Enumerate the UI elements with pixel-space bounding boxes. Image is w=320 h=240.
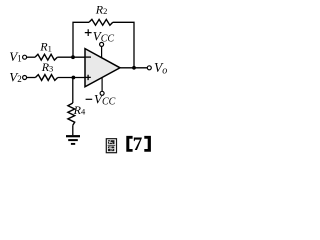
svg-text:R2: R2 bbox=[95, 2, 108, 16]
op-amp -VCC pin stub bbox=[101, 78, 103, 92]
svg-text:7: 7 bbox=[133, 134, 143, 155]
ground bbox=[66, 135, 80, 137]
svg-text:V1: V1 bbox=[9, 49, 21, 64]
op-amp U1 bbox=[85, 49, 120, 87]
wire V2 terminal to R3 bbox=[27, 77, 36, 79]
resistor R3 bbox=[35, 75, 57, 81]
node Vo terminal bbox=[147, 66, 151, 70]
svg-text:V2: V2 bbox=[9, 69, 21, 84]
op-amp +VCC pin stub bbox=[101, 46, 103, 58]
caption right lenticular bracket bbox=[144, 136, 151, 152]
node junction output bbox=[132, 66, 136, 70]
svg-text:R4: R4 bbox=[73, 103, 86, 117]
caption left lenticular bracket bbox=[126, 136, 132, 152]
wire feedback right vertical bbox=[113, 22, 134, 68]
op-amp +VCC pin terminal bbox=[100, 42, 104, 46]
wire R4 to ground bbox=[72, 125, 74, 135]
svg-text:Vo: Vo bbox=[154, 60, 167, 77]
resistor R2 bbox=[89, 19, 113, 25]
node junction non-inverting input bbox=[72, 76, 76, 80]
wire R1 to op-amp inverting input bbox=[57, 56, 85, 58]
op-amp -VCC pin terminal bbox=[100, 91, 104, 95]
svg-text:VCC: VCC bbox=[93, 28, 115, 44]
wire op-amp output bbox=[120, 67, 147, 69]
resistor R1 bbox=[35, 54, 57, 60]
wire junction to R4 bbox=[72, 78, 74, 104]
caption figure glyph (CJK drawn) bbox=[106, 139, 116, 153]
wire V1 terminal to R1 bbox=[27, 56, 35, 58]
label -VCC bbox=[86, 98, 93, 100]
op-amp inverting input marker - bbox=[86, 56, 91, 58]
op-amp non-inverting input marker + bbox=[85, 75, 90, 80]
node V1 terminal bbox=[23, 55, 27, 59]
svg-text:VCC: VCC bbox=[94, 91, 116, 107]
svg-text:R3: R3 bbox=[41, 60, 54, 74]
node junction inverting input bbox=[71, 55, 75, 59]
resistor R4 bbox=[68, 103, 75, 125]
label +VCC bbox=[85, 29, 92, 36]
wire feedback left vertical bbox=[73, 22, 89, 57]
svg-text:R1: R1 bbox=[39, 40, 52, 54]
node V2 terminal bbox=[23, 76, 27, 80]
wire R3 to op-amp non-inverting input bbox=[58, 77, 86, 79]
